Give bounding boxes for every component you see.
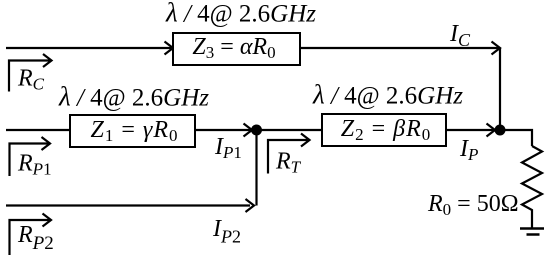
svg-text:R0 = 50Ω: R0 = 50Ω	[427, 191, 519, 219]
wire mid node down	[255, 130, 257, 206]
arrowhead I_P2 at mid branch	[246, 199, 255, 212]
R_P1 indicator arrow	[10, 137, 51, 176]
svg-text:Z3 = αR0: Z3 = αR0	[192, 34, 275, 62]
arrowhead I_P1 into mid node	[244, 124, 253, 137]
transmission line Z2 box	[322, 114, 446, 146]
R_T indicator arrow	[268, 134, 310, 174]
arrowhead I_P into right node	[487, 124, 496, 137]
svg-text:λ / 4@ 2.6GHz: λ / 4@ 2.6GHz	[58, 82, 209, 112]
arrowhead I_C at corner	[492, 42, 501, 55]
node mid junction	[251, 125, 262, 136]
ground	[520, 229, 544, 235]
R_C indicator arrow	[9, 54, 52, 92]
transmission line Z3 box	[173, 33, 300, 65]
svg-text:Z1 = γR0: Z1 = γR0	[90, 117, 178, 145]
svg-text:λ / 4@ 2.6GHz: λ / 4@ 2.6GHz	[312, 80, 463, 110]
resistor R0 zigzag	[522, 146, 542, 229]
wire right node to resistor top	[500, 130, 532, 146]
svg-text:Z2 = βR0: Z2 = βR0	[341, 116, 432, 144]
wire corner down to right node	[499, 48, 501, 126]
wire collector input	[6, 47, 171, 49]
svg-text:λ / 4@ 2.6GHz: λ / 4@ 2.6GHz	[165, 0, 316, 28]
arrowhead into Z3 box	[165, 42, 174, 55]
wire mid node to Z2	[257, 129, 323, 131]
wire parallel-2 input	[6, 204, 250, 206]
wire Z3 to top-right corner	[300, 47, 500, 49]
wire Z1 to mid node	[195, 129, 251, 131]
node right junction	[495, 125, 506, 136]
R_P2 indicator arrow	[10, 214, 52, 256]
wire Z2 to right node	[446, 129, 494, 131]
wire parallel-1 input	[6, 129, 70, 131]
transmission line Z1 box	[70, 115, 195, 147]
